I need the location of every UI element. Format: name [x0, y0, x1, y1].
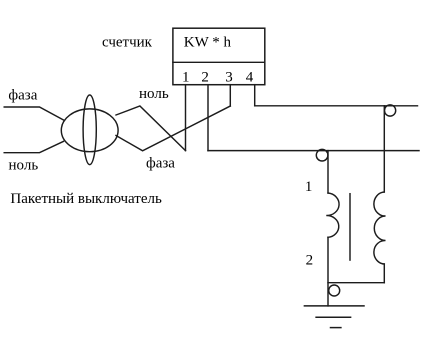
wire: left load branch upper drop	[327, 151, 329, 193]
packet switch S1 body (ellipse)	[61, 109, 118, 152]
wire: right load branch lower drop	[383, 264, 385, 283]
ground clamp circle	[329, 285, 340, 296]
svg-text:фаза: фаза	[8, 88, 37, 104]
svg-text:ноль: ноль	[139, 86, 169, 102]
wire: switch neutral output to meter pin 1	[116, 106, 186, 151]
svg-text:фаза: фаза	[146, 155, 175, 171]
svg-text:2: 2	[306, 252, 314, 268]
svg-text:1: 1	[182, 69, 190, 85]
wire: pin 2 horizontal run to load	[208, 150, 419, 152]
wire: meter pin 3 drop	[229, 85, 231, 106]
wire: meter pin 2 drop	[207, 85, 209, 151]
ground bar 3	[331, 327, 341, 329]
wire: meter pin 4 drop	[254, 85, 256, 106]
junction clamp circle on pin-4 run (node B)	[385, 105, 396, 116]
load coil L1 (left winding, bumps right)	[326, 193, 339, 237]
svg-text:3: 3	[225, 69, 233, 85]
wire: meter pin 1 drop	[185, 85, 187, 151]
wire: bottom connector between branches	[328, 282, 384, 284]
ground bar 2	[316, 316, 351, 318]
packet switch S1 handle (vertical lens)	[83, 95, 96, 165]
wire: phase input to switch	[4, 107, 64, 121]
svg-text:счетчик: счетчик	[102, 35, 153, 51]
wire: pin 4 horizontal run to load	[255, 105, 418, 107]
svg-text:2: 2	[201, 69, 209, 85]
ground bar 1	[304, 305, 364, 307]
wire: right load branch upper drop	[383, 106, 385, 192]
transformer core bar	[349, 194, 351, 260]
meter U1 box outline	[173, 28, 265, 84]
junction clamp circle on pin-2 run (node A)	[316, 149, 328, 161]
wire: left load branch lower drop	[327, 237, 329, 306]
svg-text:4: 4	[246, 69, 254, 85]
wire: neutral input to switch	[4, 141, 63, 152]
svg-text:ноль: ноль	[9, 158, 39, 174]
meter U1 terminal-strip divider	[173, 61, 265, 63]
wire: switch phase output to meter pin 3	[116, 106, 230, 151]
svg-text:KW * h: KW * h	[184, 35, 232, 51]
svg-text:1: 1	[305, 179, 313, 195]
load coil L2 (right winding, bumps left)	[374, 192, 386, 264]
svg-text:Пакетный выключатель: Пакетный выключатель	[10, 191, 162, 207]
